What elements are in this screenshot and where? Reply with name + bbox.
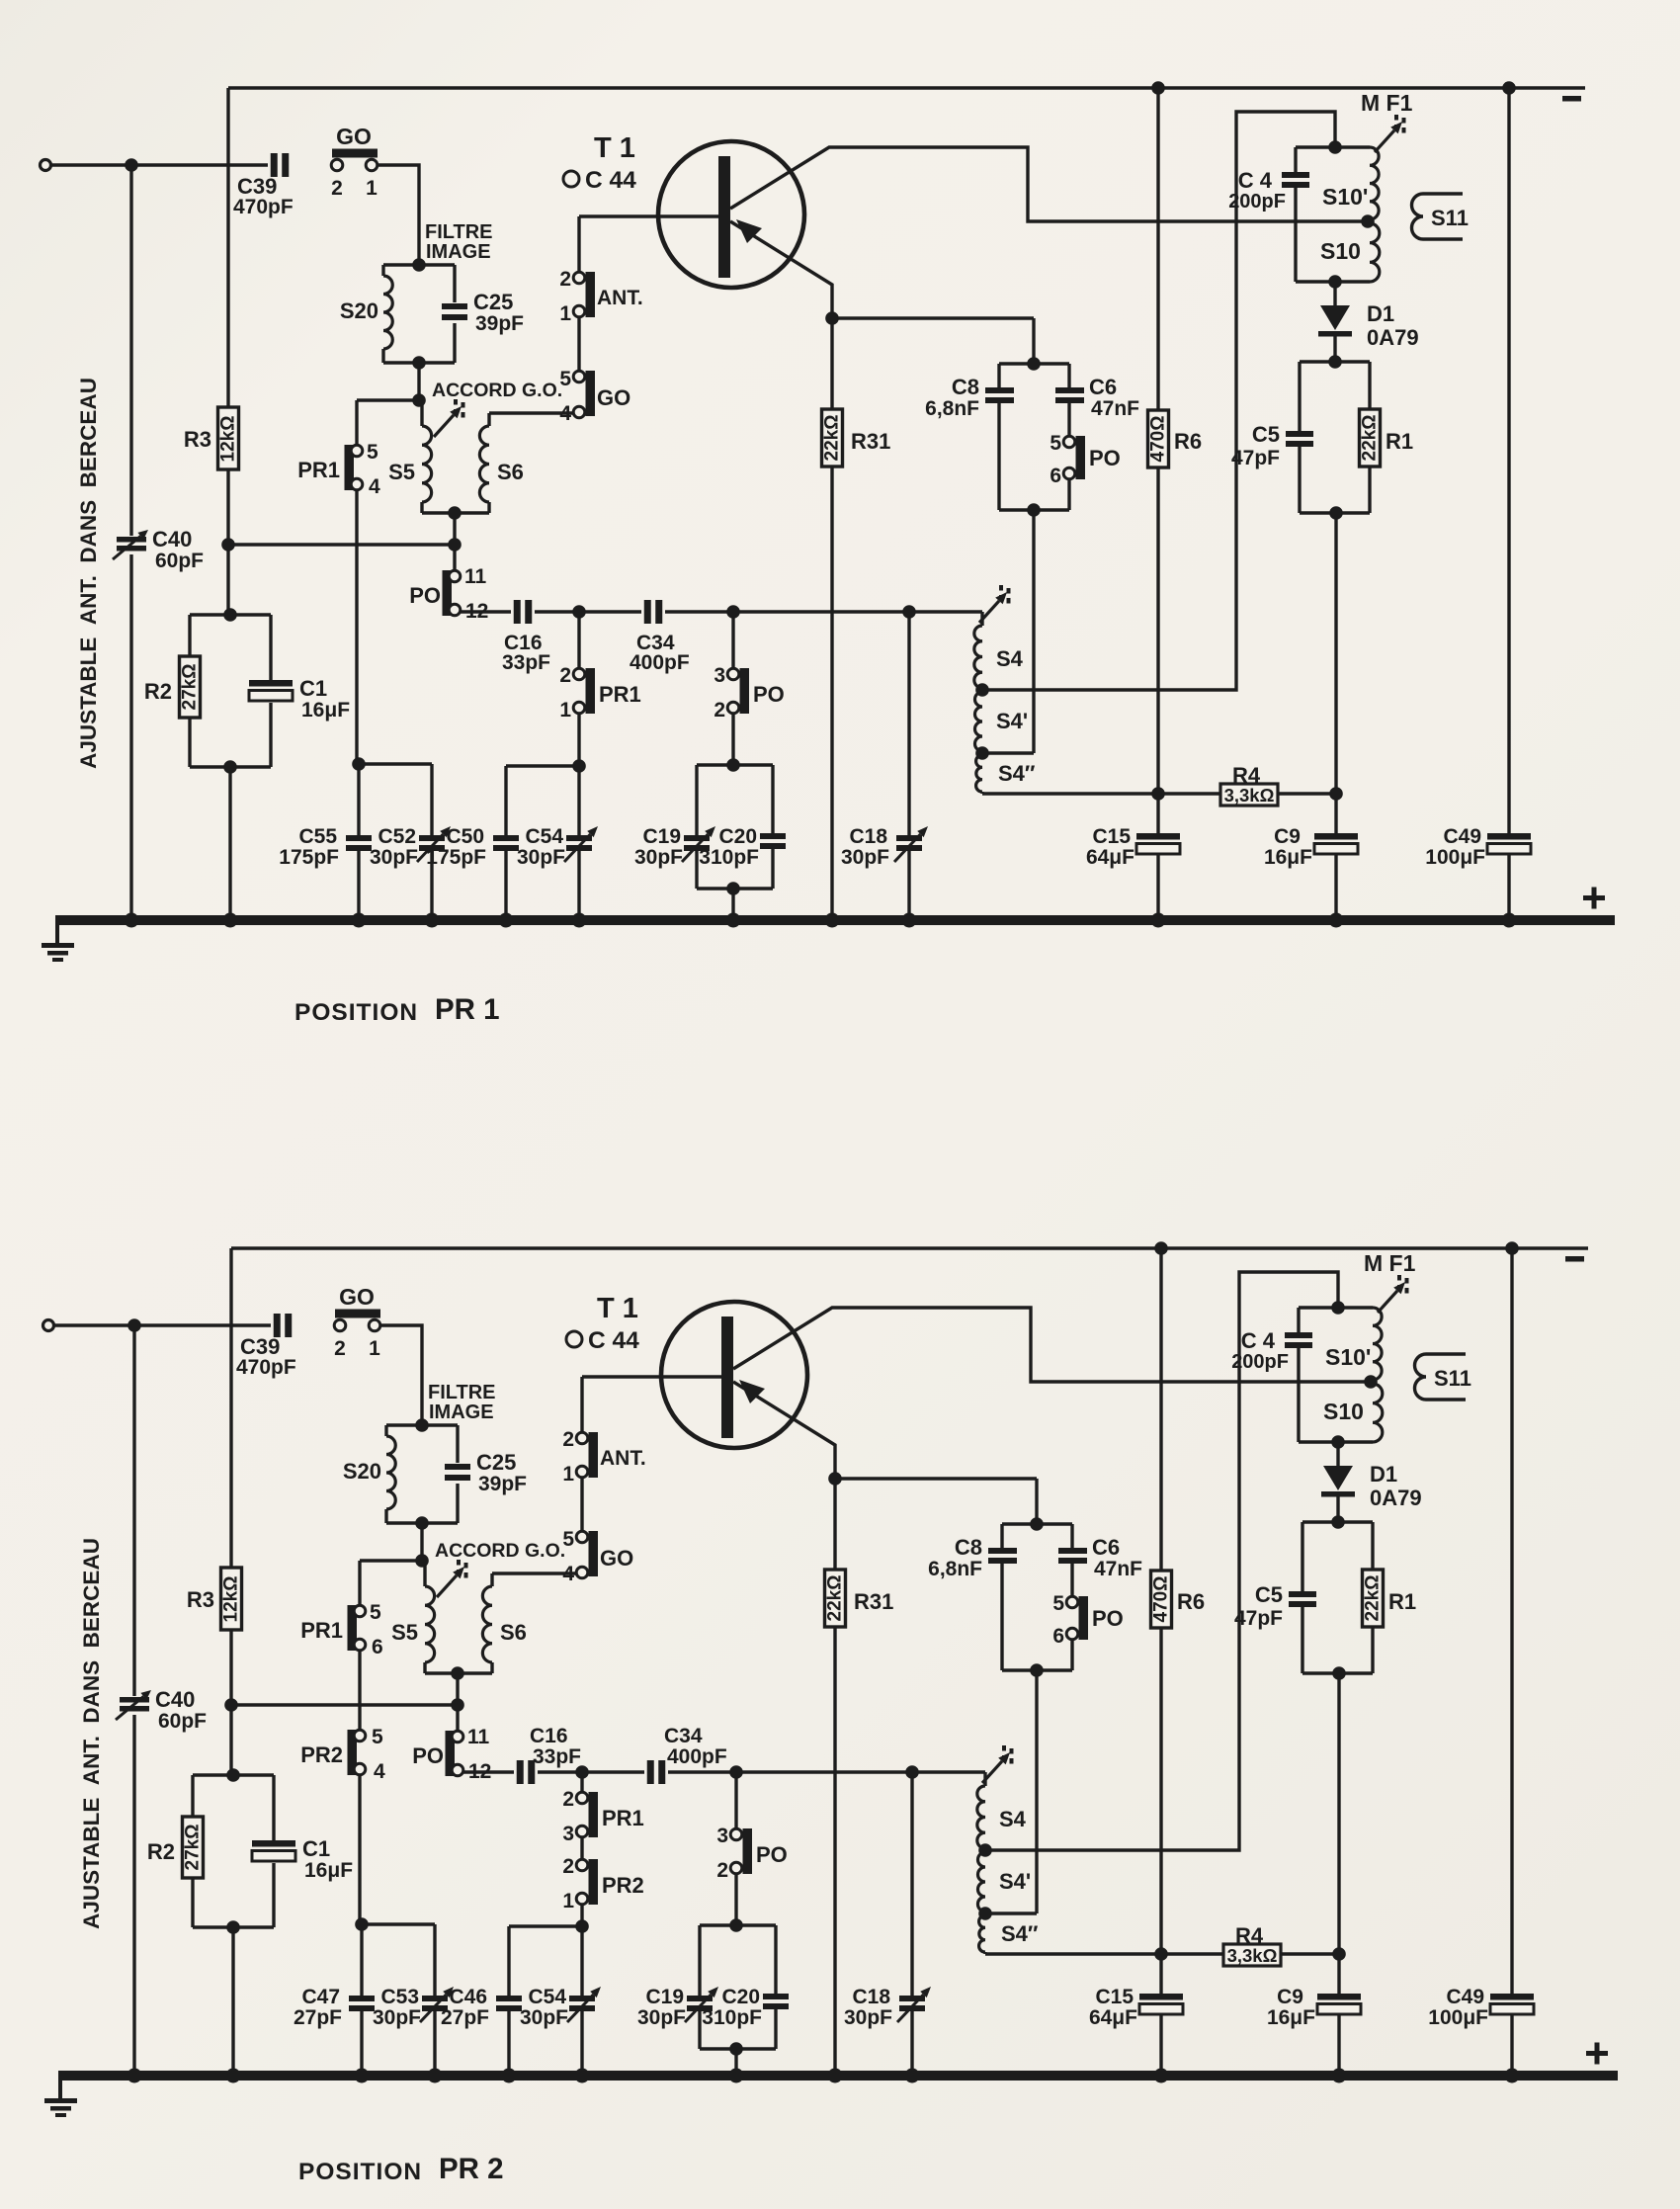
wire R31 to ground rail <box>833 1627 836 2076</box>
inductor S11 <box>1412 194 1469 239</box>
capacitor C9 <box>1267 1986 1361 2029</box>
svg-text:47nF: 47nF <box>1094 1558 1142 1580</box>
svg-text:R3: R3 <box>187 1587 214 1612</box>
svg-text:2: 2 <box>559 664 571 687</box>
svg-text:30pF: 30pF <box>841 846 889 869</box>
svg-text:R2: R2 <box>147 1839 175 1864</box>
node emitter junction <box>825 311 839 325</box>
svg-text:3: 3 <box>716 1825 728 1847</box>
wire PO contact2 to C19C20 block <box>729 1873 743 1932</box>
svg-text:470pF: 470pF <box>233 196 294 218</box>
svg-text:39pF: 39pF <box>478 1473 527 1495</box>
svg-text:200pF: 200pF <box>1228 191 1286 212</box>
wire antenna column upper <box>129 165 132 536</box>
wire R6 to C15 <box>1159 1628 1162 1994</box>
wire C49 column <box>1510 1248 1513 1994</box>
wire C5R1 block to C9 <box>1334 513 1337 833</box>
wire S10 block frame <box>1299 1301 1373 1449</box>
inductor S4 <box>974 612 1024 688</box>
svg-text:27kΩ: 27kΩ <box>183 1825 204 1871</box>
capacitor C6 <box>1058 1535 1142 1580</box>
wire PO node to C18 node <box>736 1765 919 1779</box>
node R6 top <box>1154 1241 1168 1255</box>
svg-text:GO: GO <box>339 1284 375 1310</box>
svg-text:R31: R31 <box>854 1589 893 1614</box>
label ajustable ant. dans berceau <box>79 1538 104 1929</box>
node C49 top <box>1505 1241 1519 1255</box>
svg-text:2: 2 <box>562 1428 574 1451</box>
svg-text:C 4: C 4 <box>1238 168 1273 193</box>
svg-text:C20: C20 <box>721 1986 760 2008</box>
svg-text:175pF: 175pF <box>426 846 486 869</box>
svg-text:4: 4 <box>374 1760 385 1783</box>
wire antenna column lower <box>129 554 132 920</box>
svg-text:C53: C53 <box>380 1986 419 2008</box>
svg-text:S6: S6 <box>500 1620 527 1645</box>
capacitor C9 <box>1264 825 1358 869</box>
svg-text:11: 11 <box>464 565 487 588</box>
svg-text:S11: S11 <box>1434 1366 1471 1391</box>
svg-text:64μF: 64μF <box>1086 846 1134 869</box>
wire PR2 contact1 to C54 block <box>575 1904 589 1933</box>
svg-text:30pF: 30pF <box>520 2006 568 2029</box>
svg-text:27kΩ: 27kΩ <box>180 664 201 711</box>
inductor S5 <box>388 400 432 513</box>
wire antenna column upper <box>132 1325 135 1696</box>
trimmer capacitor C52 <box>370 825 451 869</box>
svg-text:60pF: 60pF <box>158 1710 207 1733</box>
wire C5/R1 block frame <box>1300 355 1370 520</box>
label accord G.O. <box>435 1540 565 1562</box>
svg-text:C16: C16 <box>530 1725 568 1747</box>
node S4/S4' tap <box>978 1843 992 1857</box>
wire S10 block frame <box>1296 140 1370 289</box>
svg-text:22kΩ: 22kΩ <box>822 415 843 462</box>
svg-text:C18: C18 <box>852 1986 890 2008</box>
wire antenna lead-in <box>51 158 268 172</box>
wire node to C34 <box>579 610 641 613</box>
svg-text:47pF: 47pF <box>1234 1607 1283 1630</box>
svg-text:6: 6 <box>1052 1625 1064 1648</box>
inductor S10 <box>1320 223 1380 282</box>
svg-text:POSITION: POSITION <box>298 2159 422 2185</box>
svg-text:C8: C8 <box>955 1535 982 1560</box>
svg-text:C6: C6 <box>1089 375 1117 399</box>
wire R31 to ground rail <box>830 467 833 920</box>
svg-text:22kΩ: 22kΩ <box>1360 415 1381 462</box>
switch PO (contacts 5-6) <box>1050 432 1120 487</box>
svg-text:C49: C49 <box>1446 1986 1484 2008</box>
node collector to S10 tap <box>1361 214 1375 228</box>
wire S4 tap riser to S10' top <box>987 1272 1338 1850</box>
svg-text:R4: R4 <box>1232 763 1261 788</box>
label filtre image <box>428 1382 496 1423</box>
trimmer capacitor C19 <box>634 825 715 869</box>
wire S4'' to R4 <box>985 1947 1223 1961</box>
trimmer core accord G.O. <box>437 1560 466 1597</box>
capacitor C1 <box>252 1836 353 1882</box>
svg-text:GO: GO <box>336 124 372 149</box>
trimmer capacitor C18 <box>844 1986 931 2029</box>
resistor R31 <box>822 318 891 467</box>
wire S5 S6 common <box>425 1666 492 1680</box>
wire C8C6 block to S4' tap <box>984 510 1034 753</box>
capacitor C5 <box>1234 1582 1316 1630</box>
trimmer core MF1 <box>1364 1250 1416 1313</box>
svg-text:30pF: 30pF <box>637 2006 686 2029</box>
svg-text:PR 1: PR 1 <box>435 993 500 1026</box>
svg-text:C6: C6 <box>1092 1535 1120 1560</box>
svg-text:16μF: 16μF <box>301 699 350 722</box>
switch PO (contacts 11-12) <box>412 1726 491 1783</box>
svg-text:S10': S10' <box>1322 184 1368 210</box>
svg-text:AJUSTABLE ANT. DANS BERCEAU: AJUSTABLE ANT. DANS BERCEAU <box>76 378 101 769</box>
resistor R3 <box>184 407 239 469</box>
node filtre image top <box>415 1418 429 1432</box>
resistor R6 <box>1148 88 1203 467</box>
capacitor C20 <box>702 1986 789 2029</box>
wire C16 to node <box>538 1765 589 1779</box>
svg-text:470pF: 470pF <box>236 1356 296 1379</box>
svg-text:C9: C9 <box>1277 1986 1303 2008</box>
wire PO node to C18 node <box>733 605 916 619</box>
svg-text:C 4: C 4 <box>1241 1328 1276 1353</box>
svg-text:60pF: 60pF <box>155 550 204 572</box>
capacitor C49 <box>1428 1986 1534 2029</box>
switch PR2 (contacts 2-1) <box>562 1836 643 1912</box>
wire C49 to ground rail <box>1507 854 1510 920</box>
wire PR1 contact 6 down to PR2 <box>358 1650 361 1731</box>
capacitor C4 <box>1231 1328 1312 1373</box>
svg-text:R6: R6 <box>1177 1589 1205 1614</box>
svg-text:39pF: 39pF <box>475 312 524 335</box>
capacitor C16 <box>502 600 550 674</box>
switch ANT (contacts 2-1) <box>562 1428 645 1486</box>
wire filtre image to accord node <box>415 1516 429 1568</box>
svg-text:PR1: PR1 <box>300 1618 343 1643</box>
svg-text:PR1: PR1 <box>297 458 340 482</box>
svg-text:PO: PO <box>412 1743 444 1768</box>
svg-text:3,3kΩ: 3,3kΩ <box>1224 785 1275 806</box>
svg-text:30pF: 30pF <box>373 2006 421 2029</box>
svg-text:16μF: 16μF <box>1264 846 1312 869</box>
svg-text:470Ω: 470Ω <box>1148 416 1169 463</box>
trimmer capacitor C40 <box>116 1687 207 1733</box>
svg-text:PR 2: PR 2 <box>439 2153 504 2185</box>
switch PO (contacts 3-2) <box>716 1772 787 1882</box>
svg-text:2: 2 <box>562 1788 574 1811</box>
svg-text:GO: GO <box>600 1546 633 1571</box>
svg-text:C 44: C 44 <box>588 1327 639 1354</box>
wire PO12 to C16 <box>460 610 511 613</box>
transistor T1 <box>563 132 1366 318</box>
inductor S4'' <box>976 755 1036 792</box>
svg-text:5: 5 <box>562 1528 574 1551</box>
svg-text:PO: PO <box>1089 446 1121 470</box>
svg-text:S5: S5 <box>388 460 415 484</box>
svg-text:5: 5 <box>559 368 571 390</box>
svg-text:S4″: S4″ <box>998 761 1036 786</box>
svg-text:1: 1 <box>559 302 571 325</box>
svg-text:C52: C52 <box>378 825 416 848</box>
supply - terminal <box>1565 1256 1584 1262</box>
svg-text:5: 5 <box>1052 1592 1064 1615</box>
svg-text:PO: PO <box>1092 1606 1124 1631</box>
wire antenna lead-in <box>54 1318 271 1332</box>
capacitor C39 <box>236 1314 296 1379</box>
svg-text:175pF: 175pF <box>279 846 339 869</box>
svg-text:30pF: 30pF <box>844 2006 892 2029</box>
svg-text:S4': S4' <box>999 1869 1031 1894</box>
trimmer capacitor C18 <box>841 825 928 869</box>
inductor S10' <box>1322 147 1379 219</box>
switch PO (contacts 5-6) <box>1052 1592 1123 1648</box>
capacitor C34 <box>647 1725 727 1784</box>
capacitor C49 <box>1425 825 1531 869</box>
svg-text:27pF: 27pF <box>441 2006 489 2029</box>
inductor S5 <box>391 1561 435 1673</box>
wire R4 to C9 column <box>1278 787 1343 801</box>
wire C5/R1 block frame <box>1302 1515 1373 1680</box>
svg-text:C40: C40 <box>155 1687 195 1712</box>
svg-text:33pF: 33pF <box>502 651 550 674</box>
svg-text:1: 1 <box>369 1337 380 1360</box>
svg-text:30pF: 30pF <box>517 846 565 869</box>
svg-text:PR2: PR2 <box>602 1873 644 1898</box>
wire S6 to switch GO contact 4 <box>492 1572 576 1574</box>
wire R4 to C9 column <box>1281 1947 1346 1961</box>
svg-text:16μF: 16μF <box>304 1859 353 1882</box>
svg-text:12kΩ: 12kΩ <box>221 1576 242 1623</box>
svg-text:S11: S11 <box>1431 206 1469 230</box>
wire switch GO to filtre image <box>380 1325 422 1425</box>
svg-text:200pF: 200pF <box>1231 1351 1289 1373</box>
svg-text:PO: PO <box>756 1842 788 1867</box>
trimmer core accord G.O. <box>434 399 463 437</box>
svg-text:C9: C9 <box>1274 825 1301 848</box>
svg-text:C49: C49 <box>1443 825 1481 848</box>
svg-text:2: 2 <box>559 268 571 291</box>
svg-text:S4″: S4″ <box>1001 1921 1039 1946</box>
switch GO (contacts 5-4) <box>562 1528 633 1585</box>
wire C8/C6 block frame <box>1002 1517 1072 1677</box>
capacitor C25 <box>442 290 524 335</box>
svg-text:100μF: 100μF <box>1428 2006 1488 2029</box>
svg-text:IMAGE: IMAGE <box>426 241 491 263</box>
svg-text:T 1: T 1 <box>597 1293 638 1324</box>
svg-text:5: 5 <box>367 441 378 464</box>
svg-text:22kΩ: 22kΩ <box>1363 1575 1384 1622</box>
svg-text:R4: R4 <box>1235 1923 1264 1948</box>
capacitor C15 <box>1086 825 1180 869</box>
inductor S4 <box>977 1772 1027 1848</box>
svg-text:6,8nF: 6,8nF <box>925 397 979 420</box>
supply + terminal <box>1586 2043 1608 2065</box>
svg-text:C15: C15 <box>1092 825 1131 848</box>
trimmer capacitor C54 <box>520 1986 601 2029</box>
svg-text:1: 1 <box>562 1890 574 1912</box>
svg-text:4: 4 <box>369 475 380 498</box>
switch ANT (contacts 2-1) <box>559 268 642 325</box>
capacitor C16 <box>517 1725 581 1784</box>
svg-text:310pF: 310pF <box>699 846 759 869</box>
capacitor C50 <box>426 825 519 869</box>
svg-text:PO: PO <box>753 682 785 707</box>
wire C15 to ground rail <box>1159 2014 1162 2076</box>
svg-text:1: 1 <box>559 699 571 722</box>
svg-text:C46: C46 <box>449 1986 487 2008</box>
wire emitter to C8C6 block <box>832 318 1034 364</box>
capacitor C8 <box>928 1535 1017 1580</box>
svg-text:S4': S4' <box>996 709 1028 733</box>
svg-text:64μF: 64μF <box>1089 2006 1137 2029</box>
resistor R1 <box>1360 409 1414 467</box>
wire ANT1 to GO5 <box>577 316 580 372</box>
wire block C19/C20 frame <box>697 765 773 920</box>
label accord G.O. <box>432 380 562 401</box>
svg-text:5: 5 <box>370 1601 381 1624</box>
svg-text:27pF: 27pF <box>294 2006 342 2029</box>
wire top supply rail (-) <box>228 86 1585 89</box>
svg-text:C1: C1 <box>302 1836 330 1861</box>
inductor S4'' <box>979 1915 1039 1952</box>
wire ANT1 to GO5 <box>580 1477 583 1532</box>
switch PO (contacts 3-2) <box>714 612 784 722</box>
capacitor C46 <box>441 1986 522 2029</box>
svg-text:2: 2 <box>334 1337 346 1360</box>
wire S6 to switch GO contact 4 <box>489 411 573 414</box>
node emitter junction <box>828 1472 842 1486</box>
wire C5R1 block to C9 <box>1337 1673 1340 1994</box>
wire block C55/C52 frame <box>355 1917 435 2076</box>
switch GO (contacts 2-1) <box>331 124 378 200</box>
svg-text:2: 2 <box>331 177 343 200</box>
svg-text:FILTRE: FILTRE <box>428 1382 496 1403</box>
svg-text:FILTRE: FILTRE <box>425 221 493 243</box>
wire C8/C6 block frame <box>999 357 1069 517</box>
switch GO (contacts 2-1) <box>334 1284 380 1360</box>
wire filtre image frame <box>383 265 455 363</box>
wire PR1 contact 4 down to C55 block <box>355 489 358 764</box>
capacitor C15 <box>1089 1986 1183 2029</box>
wire R2/C1 block frame <box>190 608 271 920</box>
resistor R1 <box>1363 1570 1417 1627</box>
switch GO (contacts 5-4) <box>559 368 630 425</box>
wire filtre image frame <box>386 1425 458 1523</box>
capacitor C1 <box>249 676 350 722</box>
capacitor C39 <box>233 153 294 218</box>
svg-text:C1: C1 <box>299 676 327 701</box>
inductor S4' <box>977 1852 1031 1912</box>
svg-text:400pF: 400pF <box>630 651 690 674</box>
caption POSITION PR 1 <box>294 993 500 1026</box>
svg-text:47nF: 47nF <box>1091 397 1139 420</box>
svg-text:ANT.: ANT. <box>600 1447 646 1470</box>
wire top supply rail (-) <box>231 1246 1588 1249</box>
wire C9 to ground rail <box>1337 2014 1340 2076</box>
svg-text:S10: S10 <box>1323 1399 1364 1424</box>
resistor R2 <box>147 1817 204 1878</box>
svg-text:R31: R31 <box>851 429 890 454</box>
trimmer core S4 <box>979 585 1009 623</box>
wire PR2 contact 4 down to C47 block <box>358 1774 361 1924</box>
svg-text:C 44: C 44 <box>585 167 636 194</box>
svg-text:PR1: PR1 <box>602 1806 644 1830</box>
wire block C50/C54 frame <box>509 1926 582 2076</box>
svg-text:6: 6 <box>1050 465 1061 487</box>
svg-text:3: 3 <box>562 1823 574 1845</box>
svg-text:S20: S20 <box>340 298 378 323</box>
svg-text:6: 6 <box>372 1636 383 1658</box>
diode D1 <box>1318 282 1419 362</box>
node filtre image top <box>412 258 426 272</box>
inductor S10' <box>1325 1308 1382 1380</box>
svg-text:C50: C50 <box>446 825 484 848</box>
svg-text:1: 1 <box>562 1463 574 1486</box>
inductor S6 <box>479 413 524 513</box>
wire C34 to PO node <box>668 1765 743 1779</box>
svg-text:100μF: 100μF <box>1425 846 1485 869</box>
svg-text:C40: C40 <box>152 527 192 552</box>
svg-text:C19: C19 <box>642 825 681 848</box>
inductor S6 <box>482 1573 527 1673</box>
svg-text:2: 2 <box>562 1855 574 1878</box>
svg-text:C19: C19 <box>645 1986 684 2008</box>
trimmer capacitor C54 <box>517 825 598 869</box>
svg-text:0A79: 0A79 <box>1367 325 1419 350</box>
svg-text:2: 2 <box>716 1859 728 1882</box>
wire C8C6 block to S4' tap <box>987 1670 1037 1913</box>
svg-text:S4: S4 <box>999 1807 1027 1831</box>
svg-text:C5: C5 <box>1252 422 1280 447</box>
svg-text:R2: R2 <box>144 679 172 704</box>
svg-text:30pF: 30pF <box>370 846 418 869</box>
ground rail (+) <box>55 913 1615 928</box>
capacitor C47 <box>294 1986 375 2029</box>
wire antenna column lower <box>132 1715 135 2076</box>
capacitor C8 <box>925 375 1014 420</box>
svg-text:C25: C25 <box>473 290 513 314</box>
svg-text:S10: S10 <box>1320 238 1361 264</box>
svg-text:S20: S20 <box>343 1459 381 1484</box>
wire C49 column <box>1507 88 1510 833</box>
svg-text:5: 5 <box>372 1726 383 1748</box>
trimmer core S4 <box>982 1745 1012 1783</box>
label ajustable ant. dans berceau <box>76 378 101 769</box>
capacitor C4 <box>1228 168 1309 212</box>
wire base lead <box>579 216 718 273</box>
capacitor C34 <box>630 600 690 674</box>
node R6 top <box>1151 81 1165 95</box>
diode D1 <box>1321 1442 1422 1522</box>
wire S5S6 junction row <box>228 513 462 571</box>
wire block C50/C54 frame <box>506 766 579 920</box>
svg-text:PR1: PR1 <box>599 682 641 707</box>
svg-text:ACCORD G.O.: ACCORD G.O. <box>432 380 562 401</box>
svg-text:PO: PO <box>409 583 441 608</box>
svg-text:6,8nF: 6,8nF <box>928 1558 982 1580</box>
svg-text:C25: C25 <box>476 1450 516 1475</box>
switch PR1 (contacts 2-1) <box>559 612 640 722</box>
wire R3 to R2 block <box>224 1630 238 1775</box>
svg-text:C5: C5 <box>1255 1582 1283 1607</box>
wire R3 to R2 block <box>221 469 235 615</box>
wire emitter to C8C6 block <box>835 1479 1037 1524</box>
antenna input terminal <box>43 1320 54 1331</box>
svg-text:C15: C15 <box>1095 1986 1134 2008</box>
svg-text:PR2: PR2 <box>300 1742 343 1767</box>
wire R3 column upper <box>226 88 229 407</box>
